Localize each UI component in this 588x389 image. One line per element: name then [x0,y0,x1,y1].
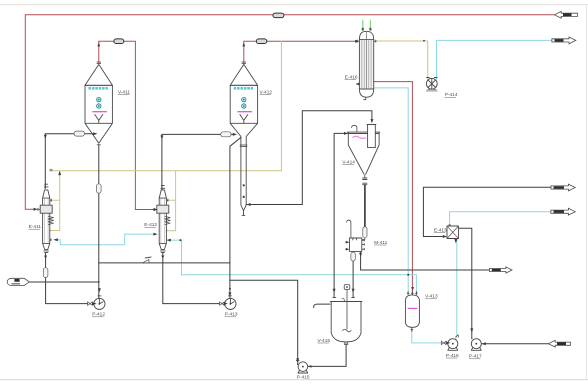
wire E-411 top to V-411 cone [45,134,93,189]
wire E-413 feed header and riser [423,187,550,236]
mixer M-411 [345,220,365,256]
inline fitting on V-411 leg [97,184,102,193]
vessel V-413 [405,291,419,331]
arrow down into P-413 [228,292,231,296]
arrow into E-412 red [153,208,157,211]
arrow into E-413 inlet [443,235,447,238]
vessel V-412 barometric leg [240,137,248,216]
vessel V-411 [85,62,112,145]
stream text y187 arrow [554,186,565,189]
inline fitting on M-411 outlet [351,252,355,261]
node junction at yellow P-414 corner [423,40,425,42]
wire green cooling water inlets to E-416 top [363,20,371,28]
wire M-411 bottom left to V-415 [352,252,354,297]
pump P-413 [225,298,236,309]
wire yellow vent riser to E-416 junction [280,41,282,170]
vent flag on transfer header [142,257,151,263]
node junction flag line V-411 leg [98,281,100,283]
frame bottom border [0,379,588,381]
arrow into V-411 cone [93,132,97,135]
arrow into E-411 red [34,208,38,211]
stream text P-417 arrow [557,342,566,345]
valve before P-412 [88,302,93,305]
svg-text:P-415: P-415 [297,374,310,380]
arrow down into P-417 [470,328,473,332]
arrow into P-413 after valve [224,302,228,305]
stream arrow incoming at P-417 (points left) [548,340,570,347]
pump P-416 [448,335,459,351]
green arrowheads into E-416 [362,28,372,31]
valve before P-413 [220,302,225,305]
wire cyan V-413 bottom to P-416 [412,332,441,343]
arrow down into V-415 from M-411 [352,289,355,293]
arrow into V-414 inlet [344,132,348,135]
arrow into M-411 left lower [346,248,350,251]
stream text feed flag [14,279,19,282]
wire P-412 suction stub [93,303,94,305]
stream arrow cooling water out y211 (points right) [551,208,575,215]
flange tick on P-415 riser [296,360,299,362]
stream text y270 arrow [492,269,501,271]
wire V-414 left nozzle down to V-415 [334,133,348,297]
flange tick above P-413 [228,295,232,297]
arrow down at E-411 bottom [44,256,47,259]
arrow up at V-412 vapor corner [242,43,245,47]
separator V-414 [347,124,380,185]
stream arrow incoming steam right top (points left) [554,11,577,18]
node cyan junction at E-412 outlet [179,239,181,241]
wire M-411 bottom right to block arrow [361,252,490,270]
flange tick above P-412 [98,295,102,297]
arrow down into V-415 from V-414 [333,289,336,293]
wire P-413 riser branch to P-415 [230,280,298,364]
heat exchanger column E-416 [357,30,376,100]
stream flag feed at bottom left [7,278,29,285]
inline fitting on V-412 vapor line [256,39,267,44]
arrow at E-412 right cyan nozzle [167,239,171,242]
frame right border [586,5,588,380]
arrow down into V-414 dip tube [370,119,373,123]
arrow into P-415 from right [308,365,312,368]
pump P-415 [298,362,308,373]
stream text y211 arrow [554,210,565,213]
wire E-413 outlet to P-417 [459,228,472,339]
tank V-415 [330,285,362,345]
inline fitting on E-412 top line [221,132,231,137]
wire P-413 suction stub [225,303,226,305]
arrow into V-412 leg from transfer line [246,203,250,206]
arrow stub at E-416 left [355,83,359,86]
pump P-412 [94,298,105,309]
arrow down into P-415 [296,358,299,362]
H tick at yellow header end [50,169,52,172]
wire P-417 discharge to right edge [481,343,548,345]
arrow down into P-412 [98,288,101,292]
inline fitting on red steam main [273,13,284,18]
wire V-412 leg outlet to V-414 dip tube [246,111,372,205]
wire yellow E-411 vent riser [50,171,59,231]
stream text cyan arrow top [555,39,564,42]
wire red E-416 condensate to V-413 [374,82,413,293]
inline fitting on E-411 top line [74,131,85,136]
wire yellow E-416 outlet to P-414 [376,41,428,79]
stream arrow cyan vacuum discharge (points right) [552,37,576,44]
wire pump transfer header [99,262,230,264]
vacuum pump P-414 [426,78,438,91]
arrow down at E-412 bottom [161,256,164,259]
arrow into E-416 red [355,40,359,43]
node junction on P-413 riser [229,288,231,290]
inline fitting on V-411 vapor line [114,39,124,44]
arrow up at V-411 vapor corner [97,43,100,47]
wire V-415 bottom outlet to P-415 [308,344,347,366]
wire feed flag line to V-411 leg [29,281,98,283]
arrow down on E-412 top line [160,135,163,139]
frame top border [0,4,588,6]
wire cyan E-413 circuit to right edge arrow [450,212,551,226]
wire V-415 left hook inlet [314,304,330,307]
arrow into M-411 left upper [346,241,350,244]
wire cyan E-412 outlet down [167,240,182,275]
arrow into V-412 cone [233,133,237,136]
arrow at E-411 cyan nozzle [54,238,58,241]
wire cyan through E-413 down to P-416 [450,226,457,339]
stream arrow product out y270 short (points right) [489,267,512,273]
arrow into E-412 cyan left [153,233,157,236]
wire E-411 bottom to P-412 [46,253,88,304]
wire red V-411 overhead vapor to E-412 [99,41,154,209]
heat exchanger E-411 [38,183,54,252]
wire cyan P-414 discharge to right edge arrow [437,40,552,79]
stream arrow condensate out y187 (points right) [551,184,575,191]
vessel V-412 [230,62,257,137]
valve before P-416 [441,341,446,344]
plate exchanger E-413 [447,225,459,240]
arrow into P-412 after valve [93,302,97,305]
arrow down on E-411 top line [44,135,47,139]
heat exchanger E-412 [155,185,171,253]
node cyan junction on main header [407,274,409,276]
arrow down on M-411 right outlet [359,253,362,257]
inline fitting on V-414 to M-411 line [363,227,367,238]
wire cyan P-416 suction stub [446,342,448,344]
wire E-412 bottom to P-413 [163,253,220,304]
wire cyan E-411 to E-412 cooling water [54,234,154,245]
wire yellow E-412 vent riser [166,171,175,231]
stream text steam arrow [563,14,572,17]
arrow down red into V-413 [411,287,414,291]
wire cyan E-416 bottom outlet down [376,88,409,275]
arrow down below E-413 [454,239,457,243]
arrow into P-417 suction [482,342,486,345]
wire red V-412 overhead vapor to E-416 [244,41,356,63]
wire E-412 top to V-412 cone [162,134,233,189]
inline fitting on E-411 bottom line [43,268,48,278]
wire yellow vent header horizontal [53,170,282,172]
wire red steam main from right edge arrow to E-411 [25,15,554,210]
wire V-412 cone tap down to P-413 [230,137,241,298]
arrow up on yellow vent riser [58,171,61,175]
wire cyan main horizontal header [182,275,417,293]
wire V-414 underflow thick line to M-411 [364,185,366,226]
arrow into P-416 after valve [446,341,450,344]
pump P-417 [471,339,481,351]
wire V-411 bottom leg down to P-412 [98,145,100,299]
